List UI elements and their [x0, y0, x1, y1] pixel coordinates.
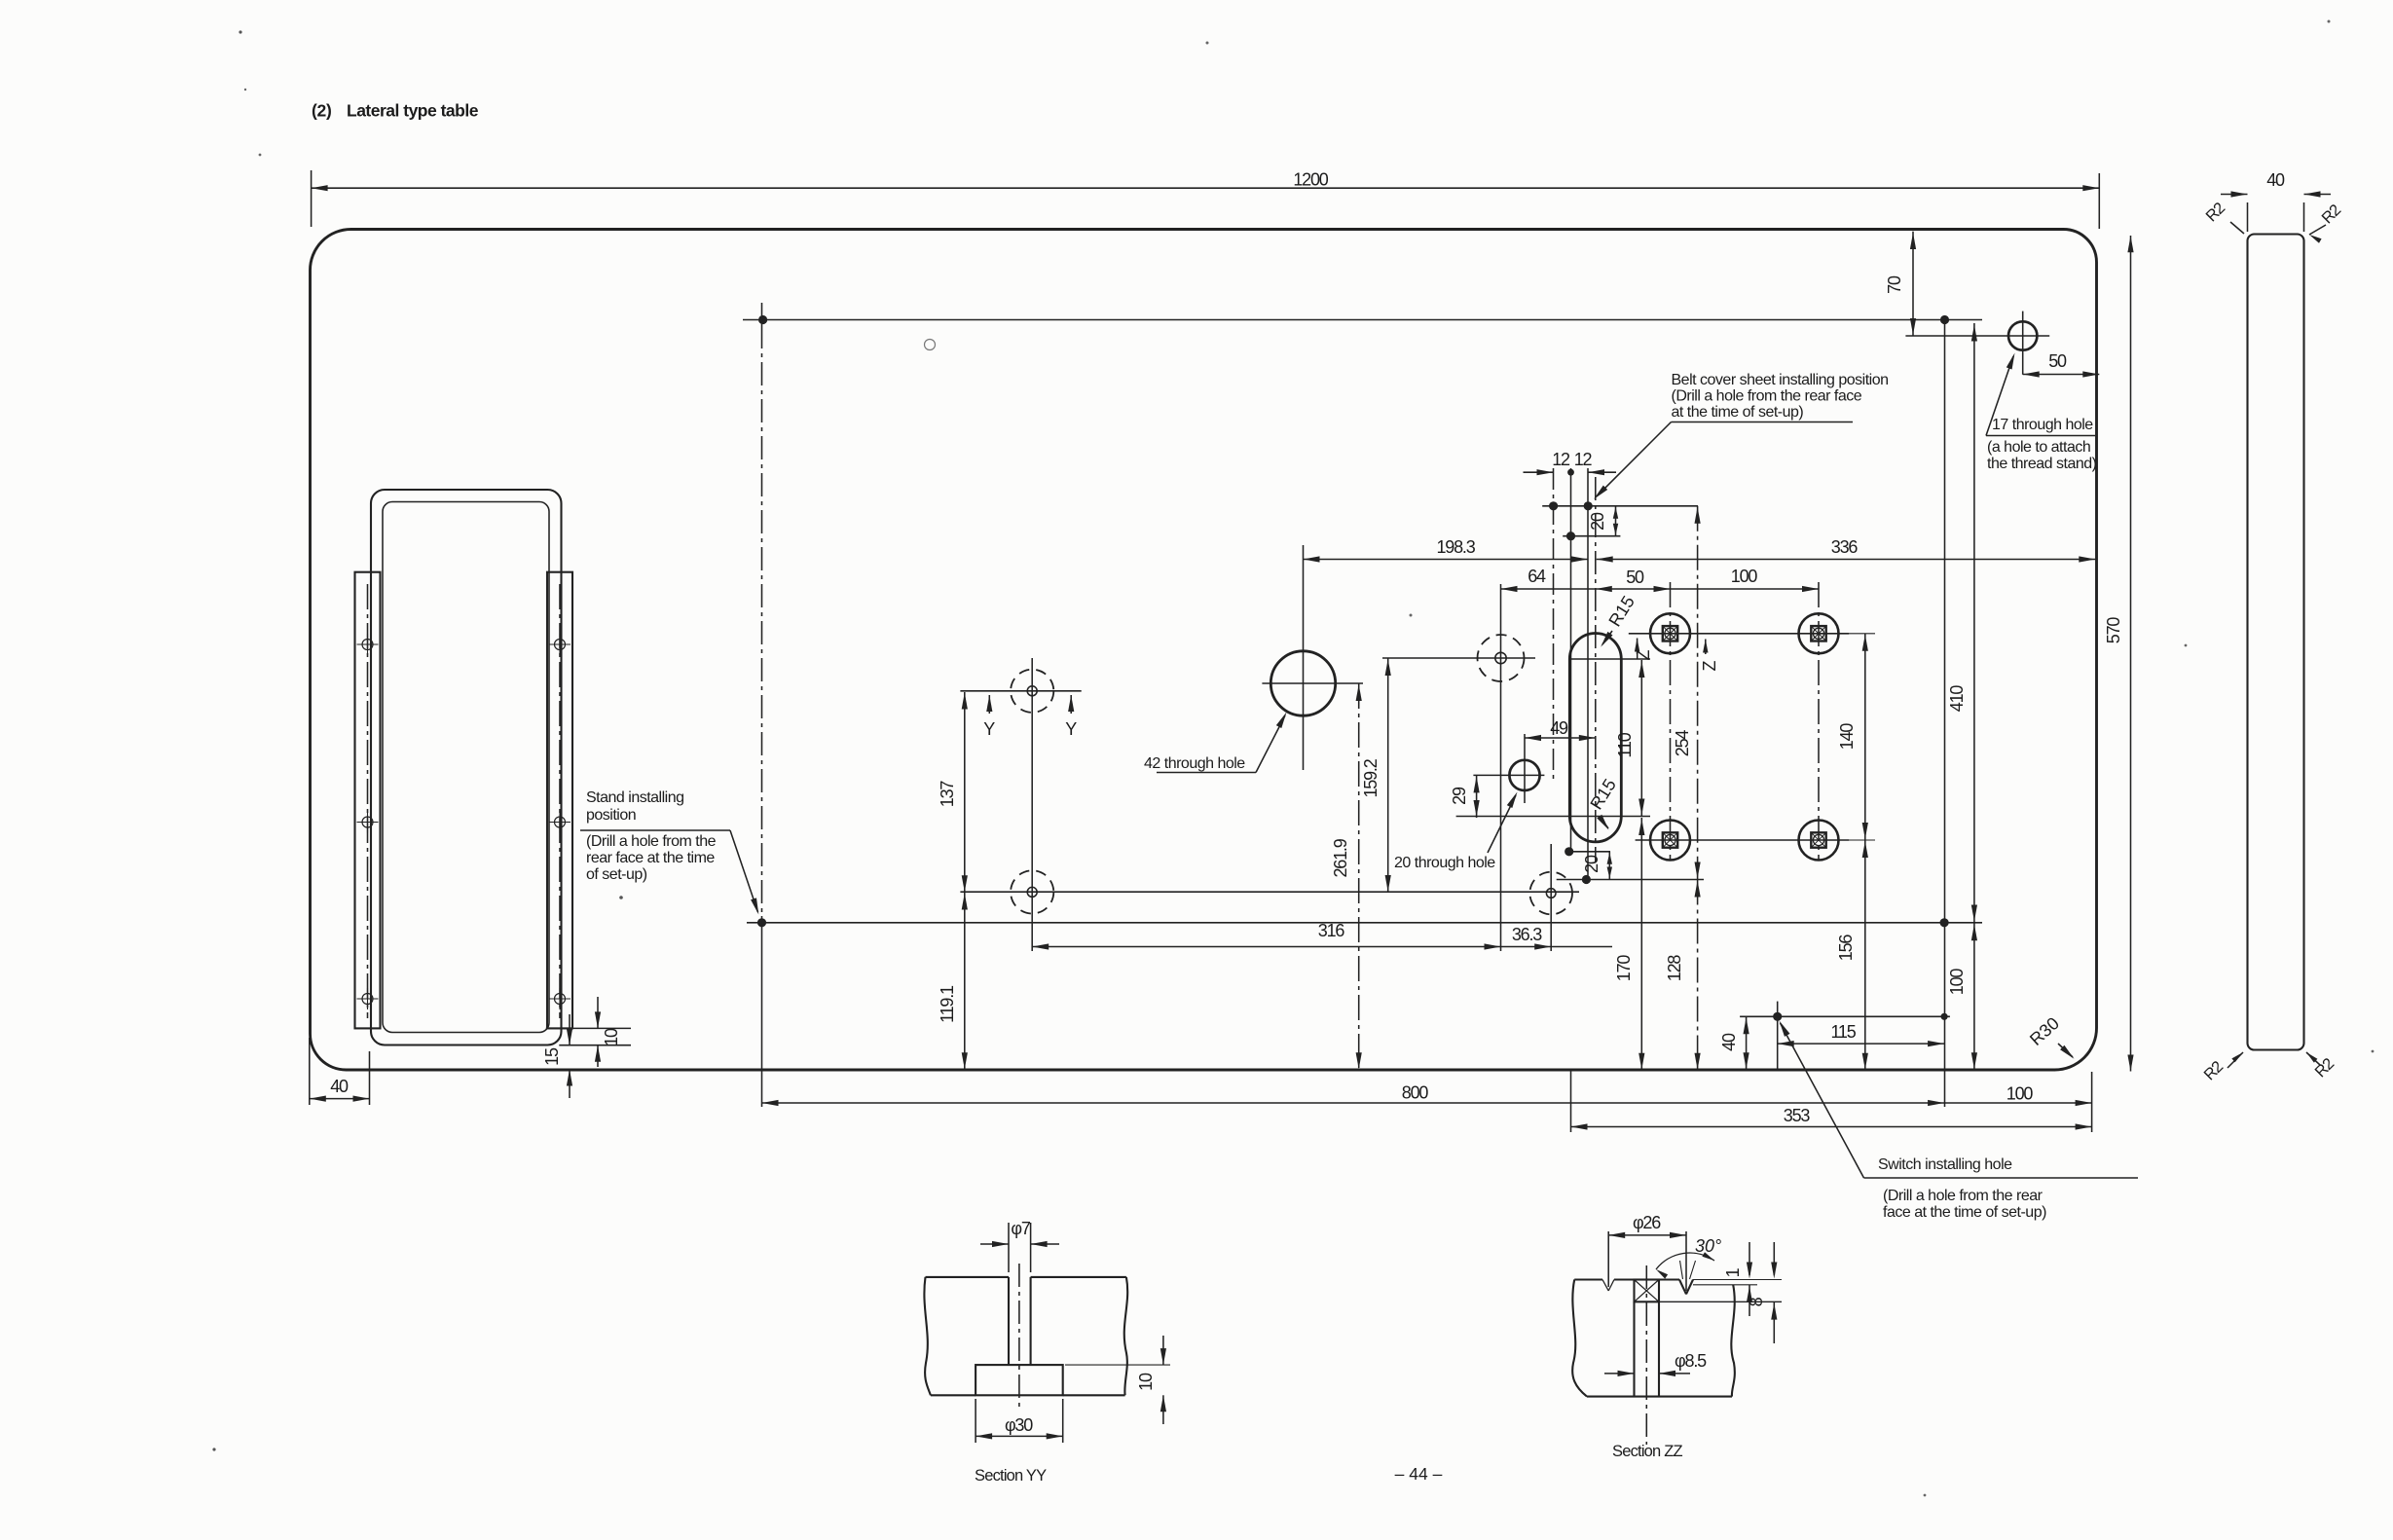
slot obround R15 [1569, 634, 1621, 842]
dim 12 12 [1524, 471, 1554, 473]
svg-text:17 through hole: 17 through hole [1992, 417, 2093, 433]
dim 100 right lower [1973, 923, 1975, 1070]
dim 261.9 [1358, 683, 1360, 1070]
stand outer frame (phantom) [371, 490, 562, 1045]
svg-text:410: 410 [1947, 685, 1967, 713]
svg-text:– 44 –: – 44 – [1395, 1464, 1443, 1484]
svg-text:12: 12 [1574, 450, 1593, 469]
dim 40 switch [1746, 1016, 1748, 1069]
dim 70 [1912, 232, 1914, 336]
svg-text:position: position [586, 807, 636, 824]
svg-text:Y: Y [1065, 719, 1077, 739]
svg-text:156: 156 [1836, 935, 1856, 962]
hole dashed bottom-right [1550, 844, 1552, 951]
svg-text:12: 12 [1552, 450, 1570, 469]
leader 20 through hole [1488, 795, 1516, 853]
bolt hole column lines [1670, 582, 1672, 861]
dim 119.1 [964, 892, 966, 1069]
section YY centerline [1018, 1264, 1020, 1410]
slot bottom arc center line [1456, 816, 1650, 818]
label Y left with arrow [988, 695, 990, 714]
svg-text:of set-up): of set-up) [586, 866, 647, 883]
dim 40 bottom-left [309, 1038, 311, 1105]
svg-text:64: 64 [1528, 567, 1546, 586]
svg-text:the thread stand): the thread stand) [1987, 456, 2097, 472]
label Y right with arrow [1070, 695, 1072, 714]
section YY counterbore phi30 [976, 1365, 1063, 1395]
right rail centerline [559, 584, 561, 1018]
side view of table edge (40 thick) [2248, 235, 2304, 1050]
svg-text:face at the time of set-up): face at the time of set-up) [1883, 1204, 2046, 1221]
reference line A [747, 922, 1982, 924]
dim 49 [1525, 737, 1596, 739]
svg-text:10: 10 [1136, 1373, 1156, 1391]
svg-text:φ8.5: φ8.5 [1675, 1351, 1707, 1371]
svg-text:110: 110 [1615, 732, 1635, 757]
hole dashed top-right [1500, 584, 1502, 951]
stand left rail [355, 572, 381, 1029]
belt cover hole dots bottom [1569, 851, 1610, 853]
leader stand installing [730, 830, 758, 912]
dim 198.3 [1304, 559, 1589, 561]
svg-text:100: 100 [2006, 1084, 2034, 1104]
svg-text:198.3: 198.3 [1436, 537, 1475, 557]
svg-text:261.9: 261.9 [1331, 838, 1350, 877]
switch hole column [1777, 1002, 1779, 1071]
dim 336 [1597, 559, 2096, 561]
node stand install dot [757, 918, 766, 927]
node stand install top dot [758, 315, 767, 324]
svg-text:42 through hole: 42 through hole [1144, 755, 1245, 772]
svg-text:115: 115 [1830, 1022, 1856, 1042]
svg-text:Z: Z [1634, 650, 1653, 661]
leader 42 through hole [1256, 715, 1285, 773]
hole 17 through [2008, 321, 2037, 349]
svg-text:254: 254 [1673, 730, 1692, 757]
rail hole at (575,844.5) [555, 817, 566, 827]
label Z right with arrow [1705, 640, 1707, 655]
rail hole at (575,662) [555, 640, 566, 650]
svg-text:100: 100 [1947, 969, 1967, 996]
section YY hole phi7 [1008, 1277, 1010, 1365]
svg-text:137: 137 [938, 781, 957, 808]
svg-text:(a hole to attach: (a hole to attach [1987, 439, 2090, 456]
svg-text:316: 316 [1318, 921, 1345, 940]
dim 40 side view [2247, 202, 2249, 232]
svg-text:rear face at the time: rear face at the time [586, 850, 715, 866]
reference column through 17 hole region [1944, 322, 1946, 1107]
svg-text:(Drill a hole from the rear: (Drill a hole from the rear [1883, 1188, 2043, 1204]
dim 36.3 [1501, 946, 1613, 948]
svg-text:Y: Y [983, 719, 995, 739]
dim 1 section ZZ [1749, 1242, 1750, 1275]
svg-text:Belt cover sheet installing po: Belt cover sheet installing position [1672, 372, 1889, 388]
left rail centerline [367, 584, 369, 1018]
stand inner frame (phantom) [383, 502, 549, 1033]
rail hole at (377.5,844.5) [362, 817, 373, 827]
stand right rail [547, 572, 572, 1029]
dim 800 [762, 1102, 1945, 1104]
section ZZ hole walls [1633, 1302, 1635, 1396]
svg-text:1: 1 [1723, 1267, 1743, 1277]
Y hole row line [960, 690, 1081, 692]
bolt holes row lines [1629, 633, 1849, 635]
dim 170 [1640, 818, 1642, 1070]
top reference line [743, 319, 1982, 321]
section YY block [924, 1277, 931, 1395]
svg-text:φ26: φ26 [1633, 1213, 1661, 1232]
svg-text:140: 140 [1837, 723, 1857, 751]
svg-text:20: 20 [1582, 855, 1601, 873]
dim 20 top [1615, 506, 1617, 536]
stand install vertical reference line [761, 303, 763, 325]
svg-text:570: 570 [2104, 617, 2123, 644]
switch hole reference line [1740, 1015, 1950, 1017]
svg-text:at the time of set-up): at the time of set-up) [1672, 404, 1804, 421]
dim 115 [1778, 1043, 1944, 1045]
rail hole at (377.5,1026) [362, 994, 373, 1005]
svg-text:353: 353 [1784, 1106, 1811, 1125]
leader belt cover [1597, 422, 1672, 497]
Y holes column centerline [1031, 658, 1033, 951]
dim 353 [1570, 1070, 1572, 1132]
svg-text:(Drill a hole from the: (Drill a hole from the [586, 833, 717, 850]
dim 159.2 [1387, 658, 1389, 892]
dim 140 [1864, 634, 1866, 840]
bolt hole top-right [1799, 613, 1839, 653]
svg-text:50: 50 [2048, 351, 2067, 371]
svg-text:159.2: 159.2 [1361, 758, 1381, 797]
dim 254 [1697, 506, 1699, 880]
leader switch installing hole [1781, 1023, 1864, 1178]
svg-text:(Drill a hole from the rear fa: (Drill a hole from the rear face [1672, 388, 1862, 405]
slot top arc center line [1569, 658, 1650, 660]
svg-text:100: 100 [1731, 567, 1758, 586]
dim 128 [1697, 880, 1699, 1071]
svg-text:Z: Z [1700, 661, 1719, 672]
svg-text:(2): (2) [312, 101, 332, 121]
table top outline (rounded rectangle 1200x570) [311, 230, 2097, 1071]
svg-text:336: 336 [1831, 537, 1859, 557]
hole 20 through [1509, 760, 1539, 790]
svg-text:φ30: φ30 [1005, 1415, 1033, 1435]
belt cover columns [1553, 468, 1555, 779]
svg-text:40: 40 [1719, 1033, 1739, 1051]
svg-text:170: 170 [1614, 955, 1634, 982]
dim 29 [1476, 775, 1478, 818]
section ZZ crossed plug [1635, 1280, 1660, 1302]
dim 10 [597, 997, 599, 1028]
svg-text:1200: 1200 [1293, 170, 1328, 190]
svg-text:Stand installing: Stand installing [586, 789, 684, 806]
dim 10 section YY [1065, 1364, 1170, 1366]
dim 137 [964, 692, 966, 892]
svg-text:50: 50 [1626, 568, 1644, 587]
dim 50 bolt [1596, 588, 1671, 590]
dim 100 bottom right [1944, 1102, 2092, 1104]
section ZZ centerline [1645, 1265, 1647, 1445]
svg-text:36.3: 36.3 [1512, 925, 1542, 944]
svg-text:Section ZZ: Section ZZ [1612, 1443, 1682, 1460]
dim 15 [546, 1027, 631, 1029]
bolt hole top-left [1650, 613, 1690, 653]
section ZZ bottom face [1587, 1396, 1732, 1398]
svg-text:128: 128 [1665, 955, 1684, 982]
hole Y top (dashed circle) [1011, 670, 1053, 713]
dim 8 section ZZ [1773, 1242, 1775, 1275]
node reference dot A right [1940, 918, 1949, 927]
svg-text:20: 20 [1588, 512, 1607, 531]
dim 64 [1501, 588, 1596, 590]
svg-text:800: 800 [1402, 1083, 1429, 1103]
svg-text:8: 8 [1747, 1297, 1766, 1306]
svg-text:119.1: 119.1 [938, 985, 957, 1023]
svg-text:Switch installing hole: Switch installing hole [1878, 1156, 2012, 1173]
svg-text:70: 70 [1885, 275, 1904, 294]
leader 17 through hole [1986, 356, 2013, 436]
slot axis centerline [1595, 477, 1597, 862]
bolt hole bottom-left [1650, 821, 1690, 861]
svg-text:30°: 30° [1695, 1236, 1721, 1256]
dim 156 [1864, 840, 1866, 1070]
section ZZ block [1572, 1280, 1587, 1397]
svg-text:Lateral type table: Lateral type table [347, 101, 479, 121]
dim 110 [1640, 660, 1642, 817]
dim 410 [1973, 323, 1975, 923]
svg-text:29: 29 [1450, 787, 1469, 805]
dim 1200 top [311, 170, 313, 227]
hole 42 through [1270, 651, 1335, 715]
scan specks [925, 340, 936, 350]
node reference dot right [1940, 315, 1949, 324]
belt cover hole dots top [1542, 505, 1698, 507]
dim 316 [1032, 946, 1500, 948]
svg-text:Section YY: Section YY [975, 1467, 1047, 1485]
rail hole at (575,1026) [555, 994, 566, 1005]
svg-text:10: 10 [602, 1028, 621, 1046]
svg-text:49: 49 [1550, 718, 1568, 738]
svg-text:φ7: φ7 [1011, 1219, 1030, 1238]
section ZZ step lines [1693, 1284, 1757, 1286]
row line through bottom holes [960, 891, 1579, 893]
node switch dot [1773, 1012, 1782, 1021]
dim 100 bolt [1671, 588, 1820, 590]
rail hole at (377.5,662) [362, 640, 373, 650]
svg-text:40: 40 [330, 1077, 349, 1096]
svg-text:15: 15 [542, 1047, 562, 1066]
dim 20 bottom [1608, 852, 1610, 880]
svg-text:40: 40 [2266, 170, 2285, 190]
label Z left with arrow [1637, 639, 1638, 655]
bolt hole bottom-right [1799, 821, 1839, 861]
svg-text:20 through hole: 20 through hole [1394, 855, 1495, 871]
dim 50 to edge [2023, 374, 2100, 376]
node switch line right dot [1941, 1013, 1948, 1020]
hole Y bottom (dashed circle) [1011, 870, 1053, 913]
